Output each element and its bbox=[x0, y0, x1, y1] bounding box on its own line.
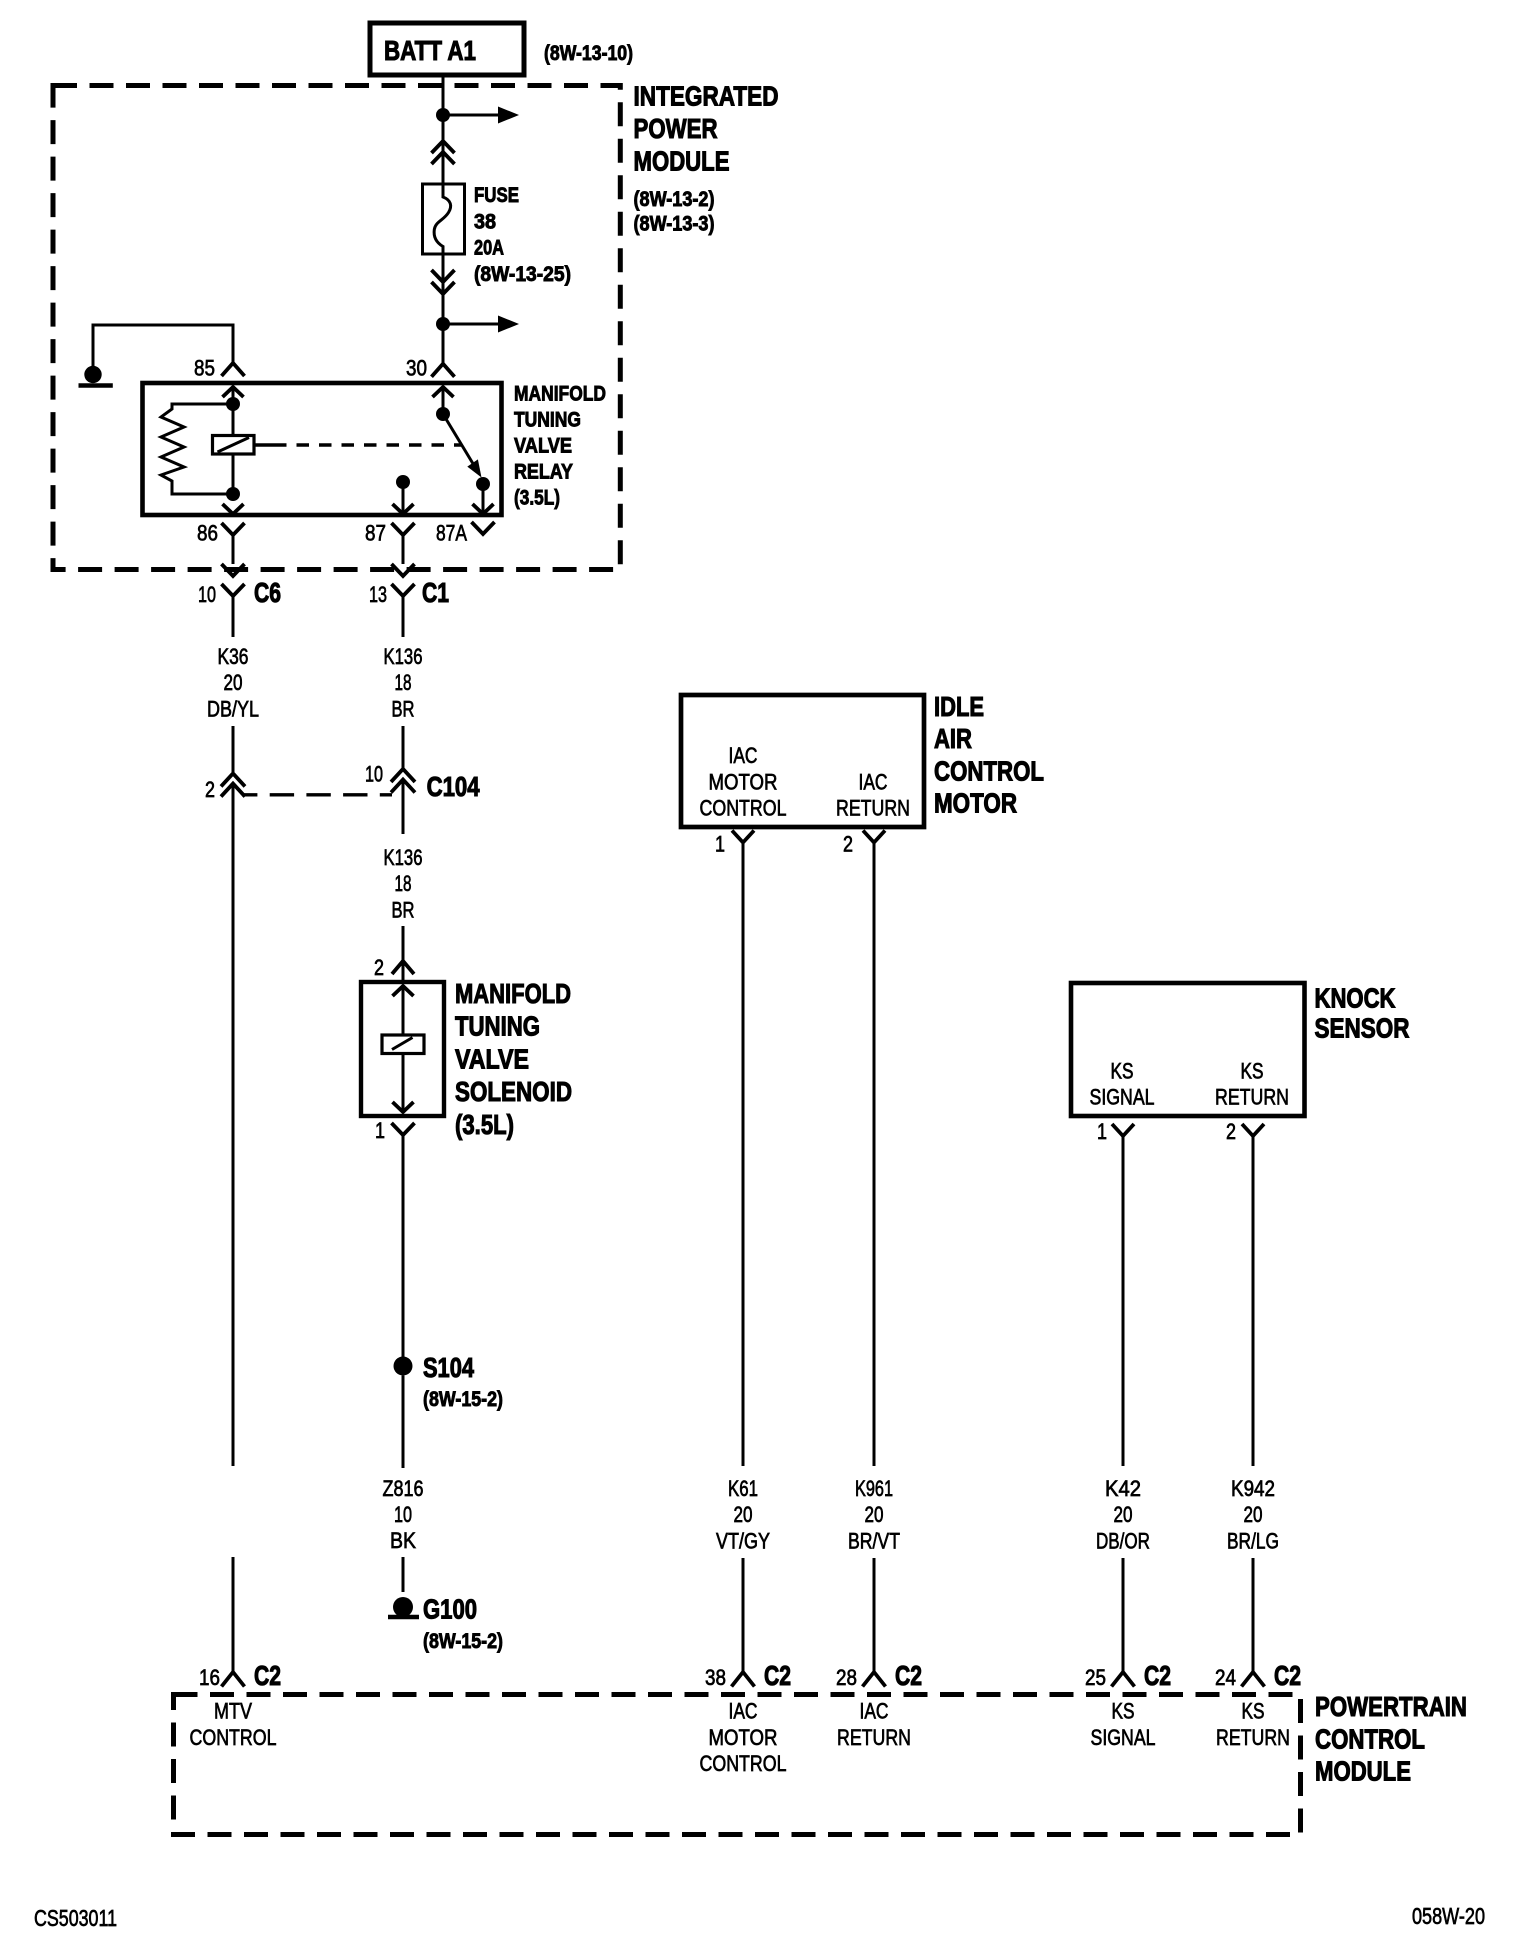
svg-text:(8W-13-10): (8W-13-10) bbox=[544, 42, 633, 65]
svg-text:CONTROL: CONTROL bbox=[700, 1751, 787, 1776]
svg-text:MODULE: MODULE bbox=[634, 146, 730, 177]
svg-text:10: 10 bbox=[365, 762, 383, 787]
svg-text:C2: C2 bbox=[1274, 1660, 1301, 1691]
svg-text:86: 86 bbox=[197, 521, 218, 546]
svg-text:MANIFOLD: MANIFOLD bbox=[514, 383, 606, 406]
svg-text:IDLE: IDLE bbox=[934, 691, 984, 722]
svg-text:20A: 20A bbox=[474, 237, 504, 260]
svg-text:20: 20 bbox=[224, 670, 243, 695]
svg-text:K942: K942 bbox=[1231, 1476, 1275, 1501]
svg-text:C2: C2 bbox=[254, 1660, 281, 1691]
svg-text:SENSOR: SENSOR bbox=[1315, 1013, 1410, 1044]
svg-text:K136: K136 bbox=[384, 845, 423, 870]
svg-text:2: 2 bbox=[374, 955, 384, 980]
svg-text:24: 24 bbox=[1215, 1665, 1236, 1690]
svg-text:(3.5L): (3.5L) bbox=[514, 487, 560, 510]
svg-text:10: 10 bbox=[198, 582, 216, 607]
svg-text:(8W-15-2): (8W-15-2) bbox=[423, 1630, 503, 1653]
svg-text:IAC: IAC bbox=[859, 769, 888, 794]
svg-text:RETURN: RETURN bbox=[836, 796, 910, 821]
svg-text:25: 25 bbox=[1085, 1665, 1106, 1690]
svg-text:DB/OR: DB/OR bbox=[1096, 1528, 1150, 1553]
svg-text:VALVE: VALVE bbox=[455, 1043, 529, 1074]
svg-text:SOLENOID: SOLENOID bbox=[455, 1076, 572, 1107]
svg-text:38: 38 bbox=[474, 210, 496, 233]
svg-text:RELAY: RELAY bbox=[514, 461, 573, 484]
svg-text:(3.5L): (3.5L) bbox=[455, 1109, 514, 1140]
svg-text:S104: S104 bbox=[423, 1352, 474, 1383]
svg-text:C2: C2 bbox=[1144, 1660, 1171, 1691]
svg-text:20: 20 bbox=[1114, 1502, 1133, 1527]
svg-text:KS: KS bbox=[1111, 1058, 1134, 1083]
svg-text:MTV: MTV bbox=[214, 1699, 252, 1724]
svg-text:18: 18 bbox=[395, 871, 412, 896]
svg-text:38: 38 bbox=[705, 1665, 726, 1690]
svg-text:10: 10 bbox=[394, 1502, 412, 1527]
svg-text:(8W-15-2): (8W-15-2) bbox=[423, 1388, 503, 1411]
svg-text:C2: C2 bbox=[895, 1660, 922, 1691]
svg-text:Z816: Z816 bbox=[383, 1476, 424, 1501]
svg-text:KS: KS bbox=[1242, 1699, 1265, 1724]
svg-text:INTEGRATED: INTEGRATED bbox=[634, 81, 779, 112]
svg-text:20: 20 bbox=[1244, 1502, 1263, 1527]
svg-text:DB/YL: DB/YL bbox=[207, 696, 259, 721]
svg-text:IAC: IAC bbox=[860, 1699, 889, 1724]
svg-text:MOTOR: MOTOR bbox=[934, 788, 1017, 819]
svg-text:20: 20 bbox=[865, 1502, 884, 1527]
svg-text:C1: C1 bbox=[422, 577, 449, 608]
svg-text:K61: K61 bbox=[728, 1476, 758, 1501]
svg-text:IAC: IAC bbox=[729, 1699, 758, 1724]
svg-text:SIGNAL: SIGNAL bbox=[1091, 1725, 1156, 1750]
svg-text:K961: K961 bbox=[855, 1476, 893, 1501]
svg-text:1: 1 bbox=[715, 832, 725, 857]
svg-text:C2: C2 bbox=[764, 1660, 791, 1691]
svg-text:MANIFOLD: MANIFOLD bbox=[455, 978, 571, 1009]
svg-text:(8W-13-3): (8W-13-3) bbox=[634, 213, 715, 236]
svg-text:BR/VT: BR/VT bbox=[848, 1528, 900, 1553]
svg-text:BK: BK bbox=[390, 1528, 416, 1553]
svg-text:2: 2 bbox=[843, 832, 853, 857]
svg-text:BR/LG: BR/LG bbox=[1227, 1528, 1279, 1553]
svg-text:18: 18 bbox=[395, 670, 412, 695]
svg-text:KS: KS bbox=[1112, 1699, 1135, 1724]
svg-text:28: 28 bbox=[836, 1665, 857, 1690]
svg-text:FUSE: FUSE bbox=[474, 184, 519, 207]
svg-text:87: 87 bbox=[365, 521, 386, 546]
svg-text:K42: K42 bbox=[1105, 1476, 1141, 1501]
svg-text:CONTROL: CONTROL bbox=[1315, 1723, 1425, 1754]
svg-text:CS503011: CS503011 bbox=[34, 1905, 117, 1931]
svg-text:CONTROL: CONTROL bbox=[934, 755, 1044, 786]
svg-text:(8W-13-2): (8W-13-2) bbox=[634, 188, 715, 211]
svg-text:BATT A1: BATT A1 bbox=[384, 35, 476, 66]
svg-text:VT/GY: VT/GY bbox=[716, 1528, 770, 1553]
svg-text:2: 2 bbox=[205, 777, 215, 802]
svg-text:30: 30 bbox=[406, 355, 427, 380]
svg-text:16: 16 bbox=[199, 1665, 220, 1690]
svg-text:85: 85 bbox=[194, 355, 215, 380]
svg-text:AIR: AIR bbox=[934, 723, 972, 754]
svg-text:CONTROL: CONTROL bbox=[700, 796, 787, 821]
svg-text:KNOCK: KNOCK bbox=[1315, 983, 1396, 1014]
svg-text:13: 13 bbox=[369, 582, 387, 607]
svg-text:C6: C6 bbox=[254, 577, 281, 608]
svg-text:RETURN: RETURN bbox=[837, 1725, 911, 1750]
svg-text:VALVE: VALVE bbox=[514, 435, 572, 458]
svg-text:IAC: IAC bbox=[729, 743, 758, 768]
svg-text:K36: K36 bbox=[218, 644, 249, 669]
svg-text:MOTOR: MOTOR bbox=[709, 769, 778, 794]
svg-text:KS: KS bbox=[1241, 1058, 1264, 1083]
svg-text:RETURN: RETURN bbox=[1216, 1725, 1290, 1750]
svg-text:87A: 87A bbox=[436, 521, 467, 546]
svg-text:G100: G100 bbox=[423, 1594, 477, 1625]
svg-text:BR: BR bbox=[392, 696, 415, 721]
svg-text:1: 1 bbox=[1097, 1119, 1107, 1144]
svg-text:C104: C104 bbox=[427, 771, 480, 802]
svg-text:POWER: POWER bbox=[634, 113, 718, 144]
svg-text:TUNING: TUNING bbox=[455, 1011, 540, 1042]
svg-text:058W-20: 058W-20 bbox=[1412, 1903, 1485, 1929]
svg-text:CONTROL: CONTROL bbox=[190, 1725, 277, 1750]
svg-text:MODULE: MODULE bbox=[1315, 1756, 1411, 1787]
svg-text:SIGNAL: SIGNAL bbox=[1090, 1085, 1155, 1110]
svg-text:K136: K136 bbox=[384, 644, 423, 669]
svg-text:TUNING: TUNING bbox=[514, 409, 581, 432]
svg-text:BR: BR bbox=[392, 897, 415, 922]
svg-text:RETURN: RETURN bbox=[1215, 1085, 1289, 1110]
svg-text:POWERTRAIN: POWERTRAIN bbox=[1315, 1691, 1467, 1722]
svg-text:MOTOR: MOTOR bbox=[709, 1725, 778, 1750]
svg-text:20: 20 bbox=[734, 1502, 753, 1527]
svg-text:1: 1 bbox=[375, 1118, 385, 1143]
svg-text:2: 2 bbox=[1226, 1119, 1236, 1144]
svg-text:(8W-13-25): (8W-13-25) bbox=[474, 263, 571, 286]
